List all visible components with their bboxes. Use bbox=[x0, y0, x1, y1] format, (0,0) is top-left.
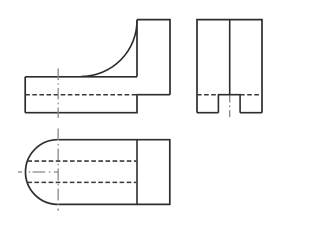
top view: upper hidden slot edge dashed bbox=[27, 160, 136, 162]
side view: hidden edge dashes right of slot bbox=[240, 94, 262, 96]
side view: slot dash-dot centerline bbox=[229, 96, 231, 118]
front view: hidden edge dashed line bbox=[25, 94, 136, 96]
top view: horizontal dash-dot centerline bbox=[18, 171, 62, 173]
side view: middle vertical edge bbox=[229, 20, 231, 95]
top view: vertical dash-dot centerline bbox=[57, 129, 59, 211]
front view: upright column outline bbox=[137, 20, 170, 95]
front view: vertical dash-dot centerline bbox=[57, 69, 59, 119]
front view: base outline bbox=[25, 77, 170, 113]
side view: hidden edge dashes left of slot bbox=[197, 94, 218, 96]
top view: inner vertical edge of column bbox=[136, 140, 138, 205]
side view: slot outline bbox=[218, 95, 240, 113]
side view: outer rectangle bbox=[197, 20, 262, 113]
top view: stadium outline with rounded left end bbox=[25, 140, 169, 205]
top view: lower hidden slot edge dashed bbox=[27, 181, 136, 183]
front view: concave fillet curve bbox=[82, 20, 138, 76]
